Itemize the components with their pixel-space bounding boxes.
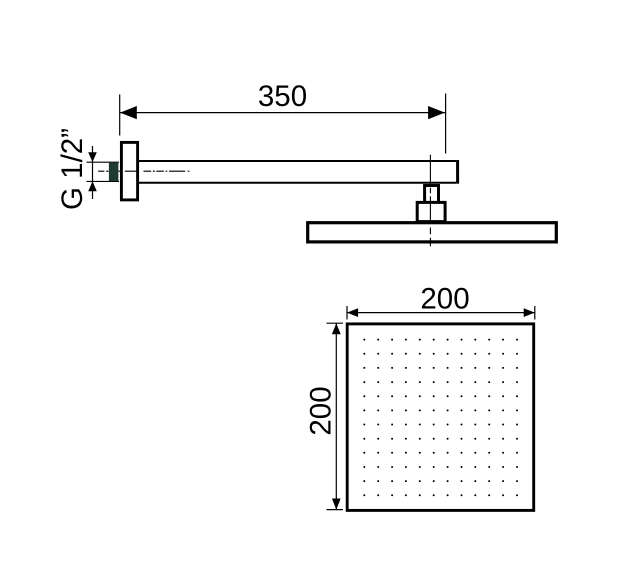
dimension G 1/2 arrow top <box>88 152 97 162</box>
dimension 200 top line <box>347 312 535 314</box>
dimension G 1/2 line <box>92 146 94 199</box>
G 1/2 thread outline <box>87 161 120 163</box>
shower arm <box>139 161 456 183</box>
connector wide <box>417 202 445 221</box>
dimension 200 left extension top <box>327 322 344 324</box>
svg-text:350: 350 <box>258 80 307 113</box>
svg-text:200: 200 <box>304 386 337 435</box>
dimension 350 extension line left <box>119 95 121 136</box>
svg-text:200: 200 <box>420 283 469 316</box>
dimension 350 line <box>120 112 445 114</box>
wall flange <box>121 142 137 200</box>
shower head side view <box>308 223 557 242</box>
dimension 200 left extension bottom <box>327 509 344 511</box>
shower head top view <box>347 324 534 511</box>
dimension 200 left arrow bottom <box>332 499 341 510</box>
connector narrow <box>425 186 439 203</box>
dimension 200 left arrow top <box>332 323 341 334</box>
connector centerline <box>429 155 431 247</box>
dimension 200 left line <box>335 323 337 509</box>
svg-text:G 1/2”: G 1/2” <box>56 128 89 210</box>
dimension 350 extension line right <box>445 94 447 154</box>
dimension 200 top extension right <box>534 306 536 320</box>
dimension G 1/2 arrow bottom <box>88 181 97 191</box>
arm centerline <box>98 170 189 172</box>
dimension 350 arrow left <box>120 106 137 119</box>
dimension 200 top arrow right <box>524 308 535 317</box>
dimension 350 arrow right <box>428 106 445 119</box>
dimension 200 top extension left <box>346 306 348 320</box>
spray nozzle dots <box>363 339 518 497</box>
G 1/2 thread body <box>109 163 119 181</box>
dimension 200 top arrow left <box>347 308 358 317</box>
